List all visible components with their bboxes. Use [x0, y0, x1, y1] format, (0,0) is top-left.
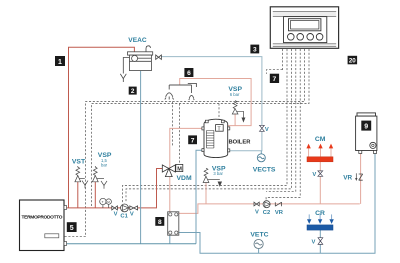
svg-text:8: 8: [158, 219, 162, 226]
svg-text:3 bar: 3 bar: [213, 171, 223, 176]
svg-text:20: 20: [349, 58, 356, 65]
svg-text:CR: CR: [315, 210, 325, 217]
svg-text:6: 6: [187, 70, 191, 77]
svg-text:CM: CM: [315, 136, 326, 143]
svg-text:V: V: [265, 127, 269, 133]
svg-text:3: 3: [253, 47, 257, 54]
svg-text:6 bar: 6 bar: [230, 92, 240, 97]
svg-text:VETC: VETC: [250, 232, 268, 239]
svg-text:TERMOPRODOTTO: TERMOPRODOTTO: [22, 214, 63, 220]
svg-text:V: V: [312, 240, 316, 246]
svg-text:VEAC: VEAC: [128, 37, 147, 44]
svg-text:7: 7: [191, 137, 195, 144]
svg-text:V: V: [312, 172, 316, 178]
svg-text:M: M: [177, 167, 182, 173]
svg-text:VDM: VDM: [177, 175, 192, 182]
svg-text:VST: VST: [72, 159, 86, 166]
svg-text:5: 5: [70, 225, 74, 232]
svg-text:V: V: [114, 211, 118, 217]
svg-text:VR: VR: [275, 210, 284, 216]
svg-text:7: 7: [273, 76, 277, 83]
svg-text:VECTS: VECTS: [253, 166, 276, 173]
svg-text:C2: C2: [263, 210, 270, 216]
svg-text:BOILER: BOILER: [229, 139, 252, 145]
svg-text:2: 2: [131, 88, 135, 95]
svg-text:T: T: [102, 200, 104, 204]
svg-text:1: 1: [58, 59, 62, 66]
svg-text:V: V: [255, 209, 259, 215]
svg-text:C1: C1: [120, 214, 128, 220]
svg-text:bar: bar: [101, 163, 108, 168]
svg-text:9: 9: [364, 124, 368, 131]
svg-text:VR: VR: [343, 175, 352, 182]
svg-text:V: V: [130, 211, 134, 217]
